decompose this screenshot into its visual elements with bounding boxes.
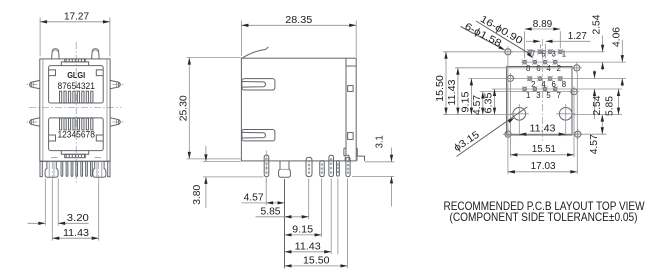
- svg-text:9.15: 9.15: [460, 91, 471, 112]
- mounting post left: [45, 161, 58, 177]
- side pin 7: [346, 157, 350, 176]
- row extension line y=89.0: [492, 88, 623, 90]
- row extension line y=67.8: [455, 67, 578, 69]
- dimension 4.06 (right): [611, 27, 624, 87]
- grounding finger curve: [242, 47, 269, 59]
- svg-text:11.43: 11.43: [295, 242, 321, 253]
- svg-text:87654321: 87654321: [57, 81, 95, 91]
- bottom port contact numbers 12345678: [57, 130, 95, 140]
- front latch window lower: [242, 130, 275, 141]
- svg-text:8: 8: [562, 80, 566, 89]
- svg-text:17.27: 17.27: [64, 12, 89, 23]
- dimension 4.57 (right bottom, circle row to bottom holes): [582, 115, 607, 155]
- svg-text:3: 3: [536, 91, 540, 100]
- bottom port latch step: [61, 151, 88, 155]
- baseline extension to circles: [443, 114, 622, 116]
- side view body outline: [241, 58, 356, 161]
- mounting post right: [93, 161, 106, 177]
- svg-text:1: 1: [562, 50, 566, 59]
- dimension 9.15 (left stack): [460, 78, 473, 114]
- svg-text:2: 2: [557, 64, 561, 73]
- pin holes row 3 (bottom port 2-4-6-8): [527, 76, 566, 89]
- front view solder pins: [61, 161, 92, 176]
- dimension 11.43 (left stack): [447, 68, 460, 115]
- leader o3.15 (mounting holes): [452, 107, 527, 157]
- bottom port latch slot: [65, 154, 86, 157]
- post pin centerline left: [51, 162, 53, 181]
- svg-text:GLGI: GLGI: [67, 70, 85, 80]
- dimension 3.80 (pin length): [192, 146, 264, 208]
- top port GLGI logo text: [67, 70, 85, 80]
- pin holes row 4 (bottom port 1-3-5-7): [522, 86, 561, 100]
- side shield finger top-left: [25, 80, 40, 88]
- svg-text:3.1: 3.1: [374, 135, 385, 148]
- svg-text:8.89: 8.89: [533, 19, 553, 30]
- top port cavity: [49, 66, 104, 103]
- svg-text:6.35: 6.35: [484, 92, 495, 113]
- bottom port side keys: [49, 135, 104, 141]
- dimension 17.03: [508, 57, 577, 174]
- datum extension line (post center): [284, 179, 286, 268]
- side pin 6: [336, 161, 339, 177]
- dimension 2.54 (right top): [592, 14, 605, 70]
- side pin 1: [264, 155, 269, 177]
- svg-text:4.06: 4.06: [611, 27, 622, 47]
- svg-text:17.03: 17.03: [531, 161, 556, 172]
- svg-text:3.20: 3.20: [67, 213, 89, 224]
- side shield finger bottom-right: [110, 118, 125, 126]
- svg-text:25.30: 25.30: [179, 95, 190, 121]
- dimension 6.35 (left stack): [484, 89, 497, 115]
- svg-text:9.15: 9.15: [292, 225, 313, 236]
- corner hole bottom-left (o1.58): [503, 129, 513, 139]
- front view body outline: [40, 59, 110, 161]
- svg-text:4.57: 4.57: [472, 95, 483, 115]
- svg-text:15.51: 15.51: [532, 144, 556, 155]
- LED dome right: [92, 49, 100, 59]
- shield leg right: [108, 161, 110, 176]
- pin holes row 1 (top port 7-5-3-1): [527, 49, 566, 58]
- mounting hole circle left (o3.15): [510, 104, 529, 136]
- bottom port contact comb: [60, 118, 93, 130]
- svg-text:4: 4: [546, 64, 551, 73]
- side pin 3: [306, 157, 312, 176]
- svg-text:11.43: 11.43: [447, 79, 458, 105]
- caption line 2: [450, 211, 638, 224]
- dimension 11.43 (side view): [285, 179, 338, 255]
- svg-text:2.54: 2.54: [592, 95, 603, 115]
- flange square hole upper: [348, 86, 354, 92]
- svg-text:3.80: 3.80: [192, 184, 203, 204]
- row extension line y=78.4: [469, 77, 627, 79]
- dimension 28.35 (side view overall depth): [241, 15, 356, 57]
- dimension 8.89 (pin field width): [525, 19, 561, 59]
- row extension line y=51.8: [443, 51, 605, 53]
- dimension 15.51: [510, 84, 574, 158]
- rear flange: [346, 58, 356, 161]
- top port latch step: [61, 62, 88, 66]
- corner hole top-left (o1.58): [503, 47, 513, 57]
- svg-text:4.57: 4.57: [589, 134, 600, 154]
- svg-text:2.54: 2.54: [592, 14, 603, 34]
- leader 6-o1.58 (corner holes): [461, 21, 506, 52]
- top port side keys: [49, 70, 104, 76]
- top port contact comb: [60, 91, 93, 103]
- leader 16-o0.90 (pin holes): [476, 14, 534, 60]
- svg-text:11.43: 11.43: [530, 123, 556, 134]
- svg-text:5.85: 5.85: [261, 207, 281, 218]
- side pin 5: [329, 155, 334, 176]
- dimension 25.30 (body height): [179, 58, 241, 159]
- dimension 4.57 (pin1 to post): [242, 179, 285, 206]
- svg-text:(COMPONENT SIDE TOLERANCE±0.05: (COMPONENT SIDE TOLERANCE±0.05): [450, 211, 638, 224]
- pcb outline rectangle: [507, 67, 572, 136]
- front view vertical centerline: [75, 42, 77, 183]
- svg-text:1.27: 1.27: [568, 31, 587, 42]
- svg-text:8: 8: [526, 64, 530, 73]
- dimension 5.85 (right): [605, 89, 621, 116]
- svg-text:5.85: 5.85: [605, 96, 616, 116]
- side pin 1 centerline: [265, 151, 267, 184]
- bottom port cavity: [49, 118, 104, 151]
- dimension 15.50 (side view): [285, 179, 348, 269]
- dimension 15.50 (left stack): [435, 52, 448, 115]
- row extension line mid-right hole: [480, 91, 576, 93]
- svg-text:11.43: 11.43: [63, 228, 89, 239]
- svg-text:12345678: 12345678: [57, 130, 95, 140]
- svg-text:1: 1: [526, 91, 530, 100]
- dimension 5.85: [256, 179, 309, 220]
- row extension line y=62.1: [521, 61, 626, 63]
- side shield finger top-right: [110, 80, 125, 88]
- side shield finger bottom-left: [25, 118, 40, 126]
- corner hole mid-right (o1.58): [569, 86, 579, 96]
- dimension 3.20 (post width): [28, 179, 90, 226]
- side mounting post: [279, 161, 291, 177]
- dimension 11.43 (mounting holes): [505, 123, 580, 136]
- corner hole mid-left (o1.58): [505, 73, 515, 83]
- dimension 2.54 (right lower): [592, 70, 603, 119]
- caption line 1: [444, 200, 645, 213]
- corner hole bottom-right (o1.58): [573, 129, 583, 139]
- svg-text:5: 5: [546, 91, 551, 100]
- svg-text:6: 6: [536, 64, 540, 73]
- top port latch slot: [65, 59, 86, 62]
- svg-text:15.50: 15.50: [303, 256, 330, 267]
- front view horizontal centerline: [29, 106, 122, 108]
- dimension 4.57 (left stack): [472, 92, 485, 115]
- bottom wall step lines: [51, 157, 101, 159]
- svg-text:7: 7: [557, 91, 561, 100]
- pcb vertical centerline: [541, 39, 543, 143]
- front latch window upper: [242, 79, 275, 90]
- svg-text:15.50: 15.50: [435, 75, 446, 102]
- front body bottom line: [40, 160, 110, 162]
- shield leg left: [40, 161, 42, 176]
- svg-text:3: 3: [552, 50, 556, 59]
- top port contact numbers 87654321: [57, 81, 95, 91]
- dimension 17.27 (front view overall width): [40, 12, 110, 57]
- dimension 3.1 (pin protrusion): [352, 135, 394, 207]
- flange square hole lower: [348, 133, 354, 140]
- flange foot: [344, 148, 365, 161]
- corner hole top-right (o1.58): [572, 63, 582, 73]
- LED dome left: [52, 49, 60, 59]
- front view inner shield fold lines: [43, 59, 107, 161]
- svg-text:4.57: 4.57: [244, 193, 264, 204]
- post pin centerline right: [98, 162, 100, 181]
- side pin 4: [320, 161, 325, 177]
- dimension 1.27 (pin pitch): [526, 31, 591, 58]
- dimension 11.43 (post spacing): [52, 181, 98, 241]
- svg-text:28.35: 28.35: [285, 15, 312, 26]
- pin holes row 2 (top port 8-6-4-2): [522, 60, 561, 74]
- mounting hole circle right (o3.15): [556, 104, 575, 136]
- dimension 9.15: [285, 179, 322, 238]
